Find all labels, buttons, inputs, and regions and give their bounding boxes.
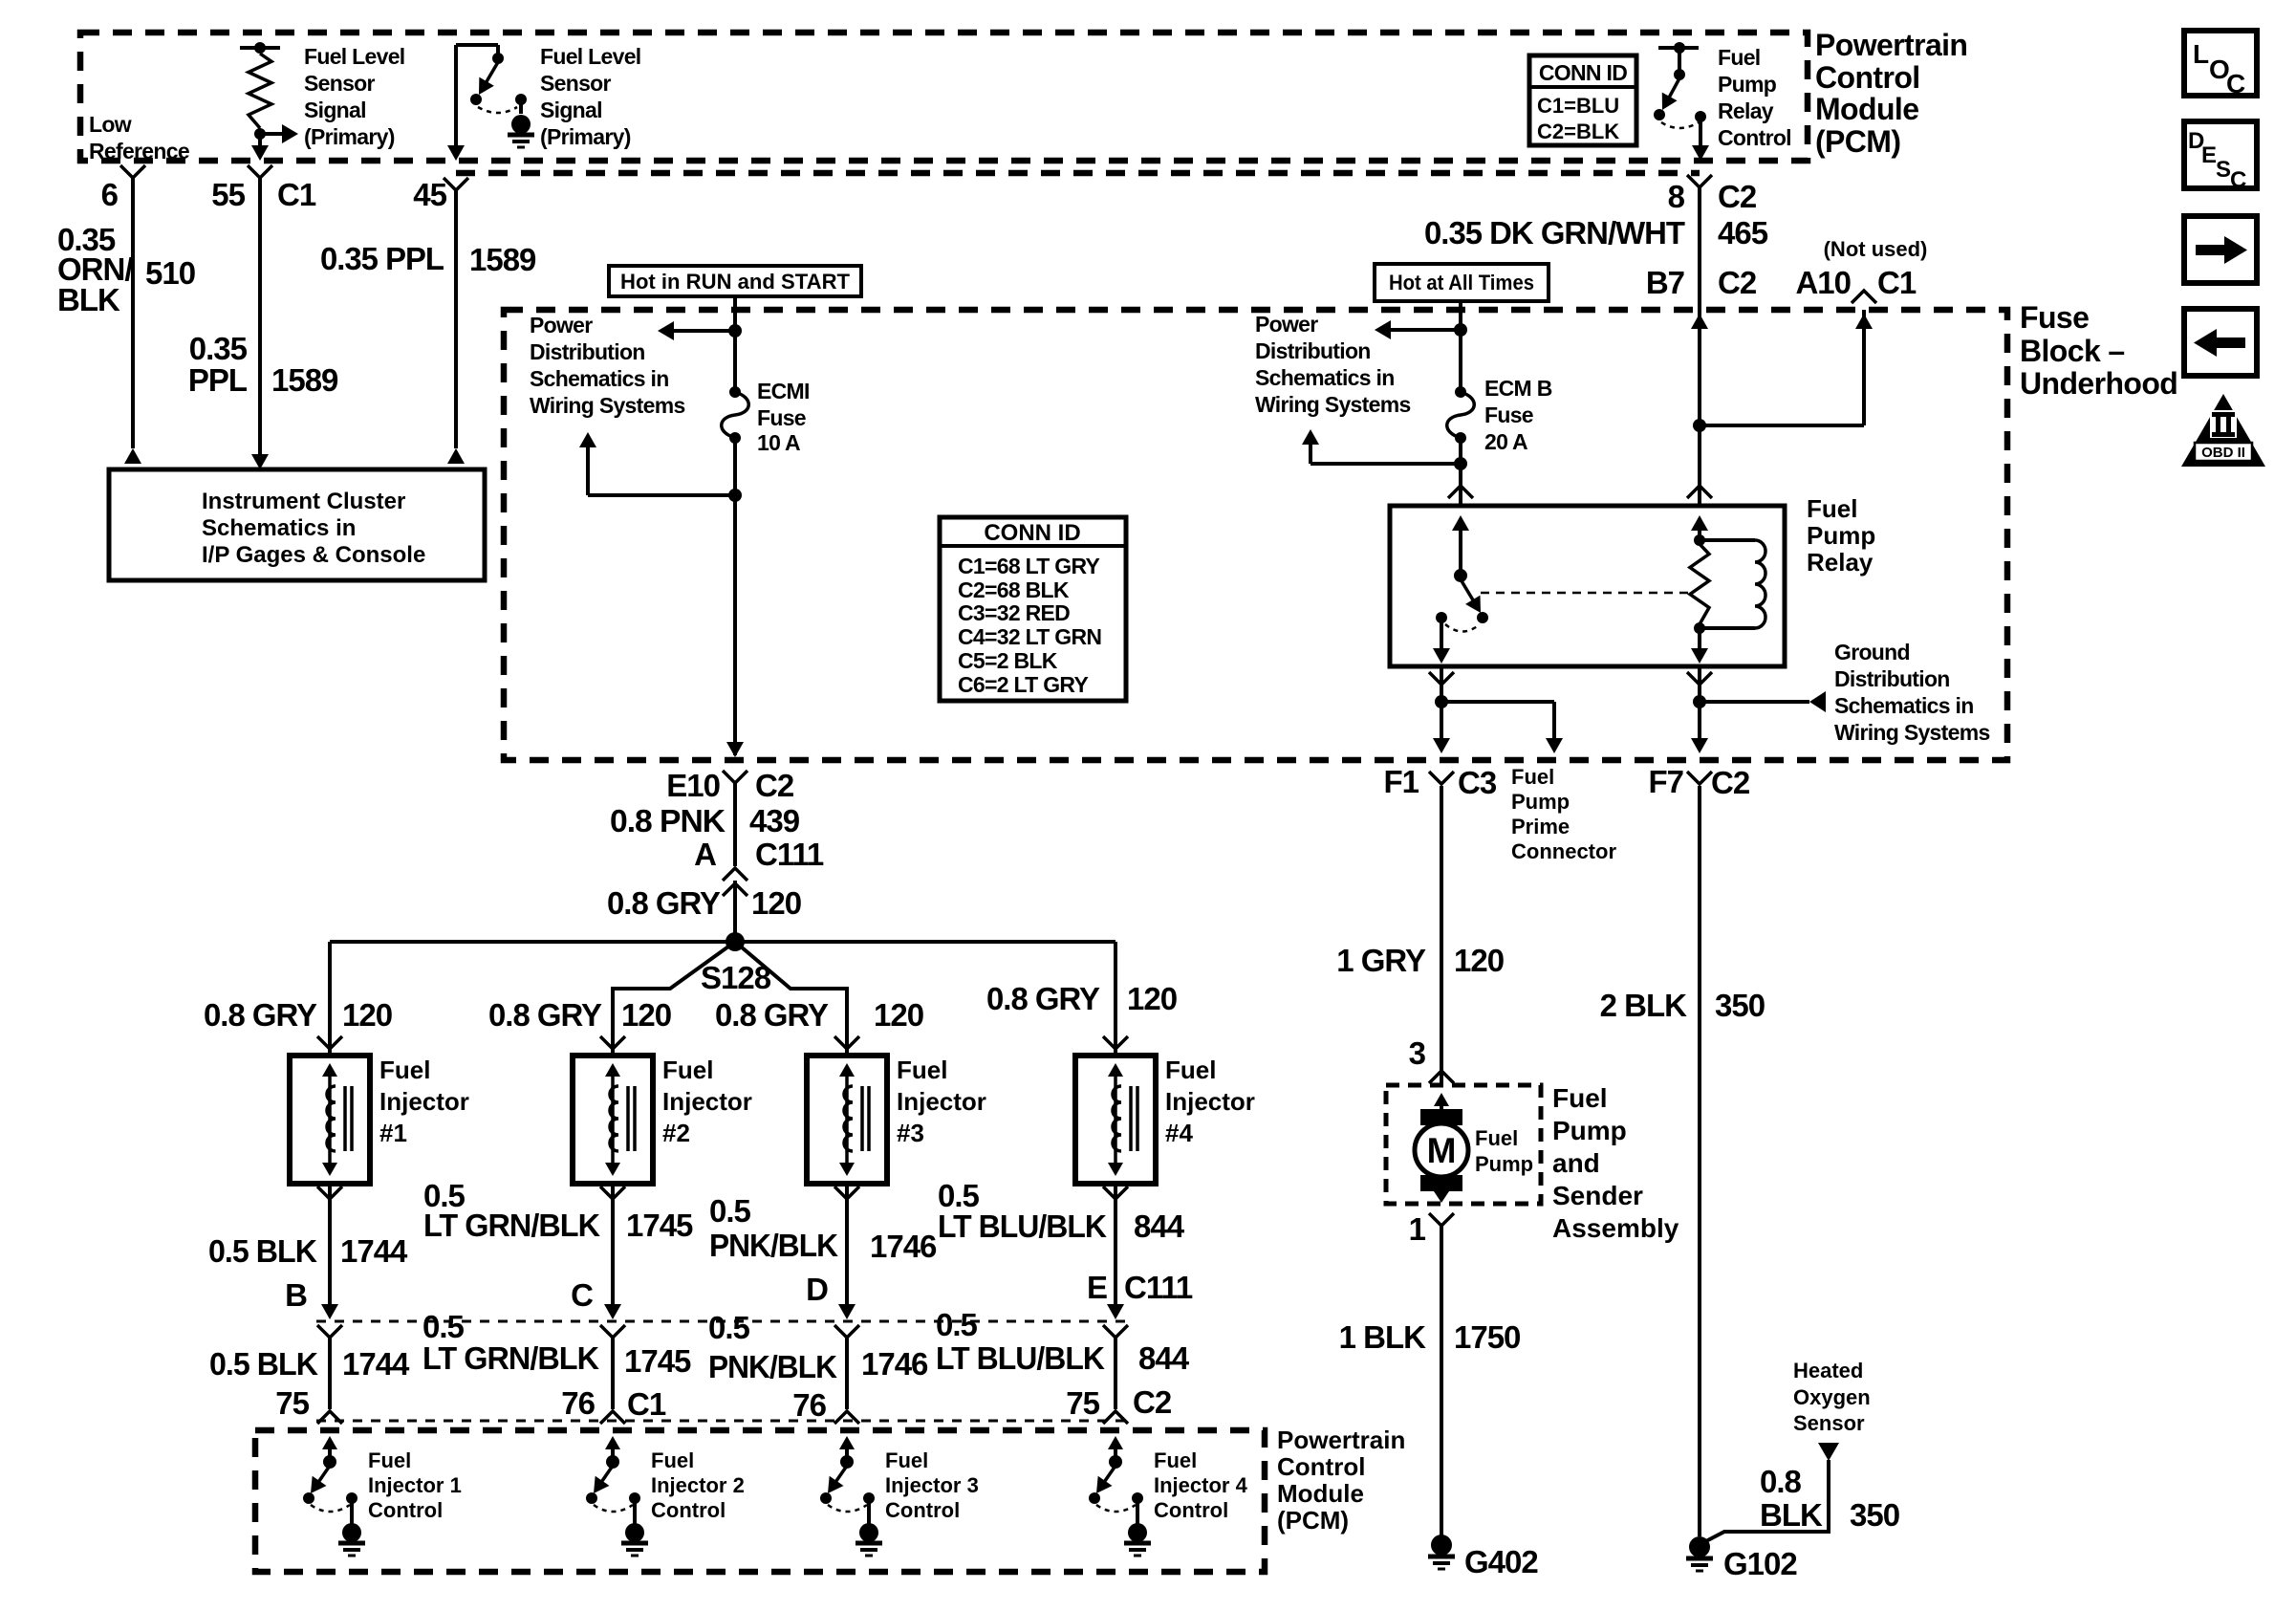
label Fuel Pump Prime Connector (1511, 765, 1616, 863)
svg-text:350: 350 (1715, 988, 1765, 1023)
PCM bottom dashed box (255, 1430, 1265, 1572)
svg-text:Wiring Systems: Wiring Systems (530, 393, 685, 418)
svg-text:G102: G102 (1723, 1546, 1797, 1581)
wire to ECM B fuse (1459, 330, 1462, 392)
motor M fuel pump (1415, 1093, 1468, 1203)
svg-text:Sensor: Sensor (304, 71, 376, 96)
fuel pump and sender assembly dashed box (1386, 1085, 1541, 1204)
label Heated Oxygen Sensor (1793, 1359, 1871, 1435)
svg-text:Heated: Heated (1793, 1359, 1863, 1382)
svg-text:0.5 BLK: 0.5 BLK (209, 1346, 318, 1382)
svg-text:1589: 1589 (469, 242, 536, 277)
label C2=BLK (1537, 120, 1619, 143)
label Fuel Pump Relay (1807, 494, 1875, 577)
wire resistor output arrow (260, 124, 298, 143)
svg-text:0.35: 0.35 (189, 331, 248, 366)
svg-text:Fuel Level: Fuel Level (304, 44, 405, 69)
svg-text:C2: C2 (1718, 265, 1757, 300)
svg-text:1: 1 (1409, 1211, 1426, 1247)
svg-text:0.5: 0.5 (708, 1310, 750, 1345)
connector pin 8 / C2 (1668, 175, 1757, 214)
svg-text:Control: Control (1277, 1452, 1365, 1481)
label Fuel Injector 4 Control (1154, 1448, 1248, 1522)
svg-text:ECM B: ECM B (1484, 376, 1552, 401)
connector pin A10 / C1 (not used) (1795, 237, 1927, 303)
connector chevron injector 3 at C111 (834, 1325, 859, 1338)
svg-text:(Not used): (Not used) (1824, 237, 1928, 261)
svg-text:Sensor: Sensor (540, 71, 612, 96)
fuel pump relay box (1390, 506, 1785, 666)
svg-text:0.8 GRY: 0.8 GRY (607, 885, 721, 921)
svg-text:C1: C1 (277, 177, 316, 212)
svg-text:C111: C111 (1124, 1270, 1193, 1305)
connector pin E / C111 (1087, 1270, 1193, 1305)
svg-text:465: 465 (1718, 215, 1768, 250)
svg-text:55: 55 (211, 177, 245, 212)
svg-text:Fuel: Fuel (368, 1448, 411, 1472)
svg-text:Control: Control (1718, 125, 1791, 150)
wire wiring-systems reference arrow right (up) (1302, 429, 1461, 464)
svg-text:C6=2 LT GRY: C6=2 LT GRY (958, 672, 1088, 697)
label 0.8 GRY 120 (inj4) (986, 981, 1177, 1016)
svg-text:(PCM): (PCM) (1277, 1506, 1349, 1535)
svg-text:76: 76 (561, 1385, 595, 1421)
svg-text:Fuel: Fuel (1718, 45, 1760, 70)
svg-text:Distribution: Distribution (1255, 338, 1371, 363)
svg-text:BLK: BLK (57, 282, 120, 317)
splice S128 (701, 932, 771, 995)
label 465 (1718, 215, 1768, 250)
icon DESC box (2184, 121, 2257, 193)
ground (fuel injector 3 driver) (856, 1498, 882, 1556)
ground G402 (1428, 1535, 1538, 1579)
node ECMI feed junction (728, 324, 742, 337)
svg-text:B: B (285, 1277, 307, 1313)
connector pin 75 (inj1) (275, 1385, 309, 1421)
svg-text:0.35 DK GRN/WHT: 0.35 DK GRN/WHT (1424, 215, 1685, 250)
svg-text:1746: 1746 (870, 1229, 937, 1264)
svg-text:I/P Gages & Console: I/P Gages & Console (202, 542, 425, 568)
connector pin 76 (inj3) (792, 1387, 826, 1423)
svg-text:Fuel: Fuel (1154, 1448, 1197, 1472)
fuel injector #1 (290, 1056, 370, 1184)
connector pin B7 / C2 (1646, 265, 1757, 300)
wire from Hot at All Times label (1459, 301, 1462, 331)
svg-text:Signal: Signal (540, 98, 602, 122)
svg-text:120: 120 (1127, 981, 1177, 1016)
label 0.35 PPL (right) (320, 241, 444, 276)
svg-text:75: 75 (275, 1385, 309, 1421)
svg-text:Control: Control (1815, 60, 1920, 95)
label ECM B Fuse 20 A (1484, 376, 1552, 454)
svg-text:B7: B7 (1646, 265, 1684, 300)
svg-text:Signal: Signal (304, 98, 366, 122)
label Power Distribution Schematics (right) (1255, 312, 1411, 417)
switch fuel injector 3 driver (in PCM) (820, 1436, 875, 1512)
fuel injector #4 (1075, 1056, 1156, 1184)
switch fuel injector 2 driver (in PCM) (586, 1436, 640, 1512)
label Powertrain Control Module (PCM) bottom (1277, 1426, 1405, 1535)
svg-text:CONN ID: CONN ID (1539, 60, 1627, 85)
svg-text:Pump: Pump (1511, 790, 1570, 814)
svg-text:C3=32 RED: C3=32 RED (958, 600, 1070, 625)
label Fuel Injector 1 Control (368, 1448, 462, 1522)
svg-text:Injector: Injector (897, 1087, 986, 1116)
label C4=32 LT GRN (958, 624, 1101, 649)
node ECM B feed junction (1454, 323, 1467, 337)
wire circuit 120 (0.8 GRY main) (733, 881, 737, 942)
svg-text:Fuel: Fuel (885, 1448, 928, 1472)
svg-text:0.5: 0.5 (709, 1193, 751, 1229)
label 1 BLK (1339, 1319, 1427, 1355)
wire wiring-systems reference arrow (up) (579, 432, 735, 495)
node 465 junction (1693, 419, 1706, 432)
svg-text:C1=BLU: C1=BLU (1537, 94, 1619, 118)
svg-text:Injector: Injector (662, 1087, 752, 1116)
svg-text:E: E (1087, 1270, 1107, 1305)
icon LOC box (2184, 31, 2257, 98)
svg-text:1745: 1745 (624, 1343, 691, 1379)
svg-text:Fuel: Fuel (1552, 1083, 1608, 1113)
svg-text:LT BLU/BLK: LT BLU/BLK (936, 1340, 1105, 1376)
wire circuit 120 (1 GRY) (1440, 786, 1443, 1085)
fuse ECMI 10 A (722, 386, 749, 444)
svg-text:C1: C1 (627, 1386, 666, 1422)
relay internal dashed link (1481, 592, 1692, 595)
connector pin A / C111 (694, 837, 824, 896)
wire circuit 1589 (to cluster) (251, 178, 269, 469)
connector pin 3 (pump) (1409, 1035, 1454, 1083)
switch fuel injector 4 driver (in PCM) (1089, 1436, 1143, 1512)
connector pin D (806, 1272, 828, 1307)
svg-text:Ground: Ground (1834, 640, 1910, 664)
connector pin 76 / C1 (inj2) (561, 1385, 666, 1422)
wire power distribution reference arrow (left) (658, 321, 735, 340)
svg-text:Injector 3: Injector 3 (885, 1473, 979, 1497)
connector pin 1 (pump) (1409, 1211, 1454, 1247)
svg-text:1589: 1589 (271, 362, 338, 398)
svg-text:Control: Control (1154, 1498, 1228, 1522)
svg-text:Hot in RUN and START: Hot in RUN and START (620, 270, 851, 294)
svg-text:Instrument Cluster: Instrument Cluster (202, 489, 405, 514)
PCM top box lower edge segment (456, 170, 1700, 177)
connector chevron injector 1 feed (317, 1036, 342, 1049)
svg-text:E: E (2201, 142, 2217, 168)
connector chevron injector 4 at C111 (1103, 1325, 1128, 1338)
connector pin F7 / C2 (1648, 764, 1749, 800)
wire heated oxygen sensor branch (1702, 1443, 1839, 1543)
svg-text:C1=68 LT GRY: C1=68 LT GRY (958, 554, 1100, 578)
label 439 (749, 803, 800, 838)
ground (fuel injector 2 driver) (621, 1498, 648, 1556)
svg-text:Fuel: Fuel (1807, 494, 1857, 523)
svg-text:0.5: 0.5 (936, 1307, 978, 1342)
connector ID small table (1529, 55, 1636, 145)
svg-text:0.8 GRY: 0.8 GRY (986, 981, 1100, 1016)
label C5=2 BLK (958, 648, 1058, 673)
svg-text:Underhood: Underhood (2020, 366, 2177, 401)
Hot in RUN and START box (609, 266, 861, 296)
svg-text:439: 439 (749, 803, 800, 838)
wire 465 to relay (1698, 425, 1701, 506)
wire enters fuse block (465) (1691, 314, 1708, 329)
resistor (fuel level sensor signal) (240, 42, 280, 140)
wire below ECMI fuse (733, 438, 737, 755)
label Fuse Block - Underhood (2020, 300, 2177, 401)
connector chevron injector 2 feed (600, 1036, 625, 1049)
svg-text:844: 844 (1134, 1208, 1185, 1244)
label 0.35 ORN/BLK (57, 222, 133, 317)
relay coil input arrow (1691, 515, 1708, 540)
wire injector 1 feed (328, 942, 332, 1056)
resistor (relay) (1690, 534, 1709, 634)
label ECMI Fuse 10 A (757, 379, 810, 455)
svg-text:1744: 1744 (342, 1346, 410, 1382)
svg-text:C2: C2 (1711, 765, 1750, 800)
wire to ECMI fuse (733, 331, 737, 392)
svg-text:F7: F7 (1648, 764, 1683, 799)
svg-text:350: 350 (1850, 1497, 1899, 1533)
icon arrow left box (2184, 309, 2257, 376)
node ECMI lower junction (728, 489, 742, 502)
svg-text:Oxygen: Oxygen (1793, 1385, 1871, 1409)
label 0.5 PNK/BLK 1746 (lower) (708, 1310, 928, 1384)
label 0.5 PNK/BLK 1746 (upper) (709, 1193, 937, 1264)
connector pin 55 / C1 (211, 165, 316, 212)
wire circuit 465 (1698, 187, 1701, 425)
label 1750 (1454, 1319, 1520, 1355)
svg-text:Schematics in: Schematics in (530, 366, 669, 391)
wire injector 4 control (upper) (1107, 1184, 1124, 1319)
wire circuit 350 (2 BLK) (1698, 786, 1701, 1536)
connector chevron below injector 2 (600, 1186, 625, 1199)
connector chevron below injector 1 (317, 1186, 342, 1199)
svg-text:(Primary): (Primary) (304, 124, 395, 149)
svg-text:LT GRN/BLK: LT GRN/BLK (423, 1208, 600, 1243)
svg-text:D: D (806, 1272, 828, 1307)
connector ID table (940, 517, 1126, 701)
svg-text:Fuel: Fuel (897, 1056, 947, 1084)
svg-text:Sensor: Sensor (1793, 1411, 1865, 1435)
label 2 BLK (1600, 988, 1688, 1023)
label 0.5 LT BLU/BLK 844 (lower) (936, 1307, 1190, 1376)
label 0.35 DK GRN/WHT (1424, 215, 1685, 250)
svg-text:76: 76 (792, 1387, 826, 1423)
wire relay coil to F7 (1691, 666, 1708, 753)
svg-text:10 A: 10 A (757, 430, 800, 455)
fuel injector #3 (807, 1056, 887, 1184)
svg-text:C2=68 BLK: C2=68 BLK (958, 577, 1070, 602)
fuel injector #2 (573, 1056, 653, 1184)
svg-text:0.8 GRY: 0.8 GRY (204, 997, 317, 1033)
svg-text:PNK/BLK: PNK/BLK (708, 1349, 837, 1384)
svg-text:Fuse: Fuse (2020, 300, 2089, 335)
svg-text:Schematics in: Schematics in (1834, 693, 1974, 718)
wire below ECM B fuse (1459, 438, 1462, 506)
svg-text:C: C (2226, 69, 2245, 98)
svg-text:Fuel Level: Fuel Level (540, 44, 641, 69)
svg-text:C5=2 BLK: C5=2 BLK (958, 648, 1058, 673)
svg-text:C2: C2 (755, 768, 794, 803)
svg-text:and: and (1552, 1148, 1600, 1178)
connector chevron injector 2 at C111 (600, 1325, 625, 1338)
svg-text:Power: Power (1255, 312, 1318, 337)
svg-text:Fuel: Fuel (379, 1056, 430, 1084)
svg-text:CONN ID: CONN ID (984, 520, 1080, 546)
label C1=BLU (1537, 94, 1619, 118)
svg-text:Schematics in: Schematics in (202, 515, 356, 541)
relay switch contact dashed arc (1445, 624, 1480, 632)
label Fuel Injector #3 (897, 1056, 986, 1147)
PCM top dashed box (Powertrain Control Module) (80, 33, 1808, 161)
svg-text:Fuel: Fuel (1165, 1056, 1216, 1084)
label 0.8 GRY (main) (607, 885, 721, 921)
wire injector 3 control (lower) (834, 1338, 859, 1424)
svg-text:Wiring Systems: Wiring Systems (1834, 720, 1990, 745)
svg-text:A10: A10 (1795, 265, 1851, 300)
svg-text:0.5: 0.5 (422, 1309, 465, 1344)
label Powertrain Control Module (PCM) top (1815, 28, 1967, 159)
svg-text:Fuel: Fuel (1475, 1126, 1518, 1150)
switch fuel injector 1 driver (in PCM) (303, 1436, 357, 1512)
svg-text:Wiring Systems: Wiring Systems (1255, 392, 1411, 417)
svg-text:Fuel: Fuel (1511, 765, 1554, 789)
svg-text:Injector 1: Injector 1 (368, 1473, 462, 1497)
svg-text:Block –: Block – (2020, 334, 2125, 368)
svg-text:Distribution: Distribution (1834, 666, 1950, 691)
svg-text:L: L (2193, 39, 2209, 69)
svg-text:Relay: Relay (1718, 98, 1774, 123)
svg-text:1750: 1750 (1454, 1319, 1520, 1355)
label C3=32 RED (958, 600, 1070, 625)
svg-text:C2: C2 (1133, 1384, 1172, 1420)
label Low Reference (89, 112, 189, 163)
svg-text:Injector 4: Injector 4 (1154, 1473, 1248, 1497)
svg-text:A: A (694, 837, 716, 872)
svg-text:Injector: Injector (1165, 1087, 1255, 1116)
svg-text:Control: Control (885, 1498, 960, 1522)
wire pin 45 inside PCM (447, 45, 465, 161)
wire S128 bus (330, 940, 1116, 944)
label Fuel Level Sensor Signal (Primary) right (540, 44, 641, 149)
svg-text:1744: 1744 (340, 1233, 408, 1269)
wire injector 1 control (lower) (317, 1338, 342, 1424)
label Instrument Cluster Schematics (202, 489, 425, 568)
svg-text:Pump: Pump (1475, 1152, 1533, 1176)
label 0.5 BLK 1744 (upper) (208, 1233, 408, 1269)
label Fuel Pump (inside box) (1475, 1126, 1533, 1176)
label 0.35 PPL (left) (188, 331, 248, 398)
wire circuit 1589 (right) (447, 190, 465, 464)
svg-text:G402: G402 (1464, 1544, 1538, 1579)
switch fuel pump relay control driver (in PCM) (1654, 42, 1706, 128)
svg-text:PNK/BLK: PNK/BLK (709, 1228, 838, 1263)
label Power Distribution Schematics (left) (530, 313, 685, 418)
svg-text:Fuse: Fuse (1484, 403, 1533, 427)
svg-text:Powertrain: Powertrain (1277, 1426, 1405, 1454)
svg-text:F1: F1 (1383, 764, 1419, 799)
label Fuel Injector #2 (662, 1056, 752, 1147)
svg-text:120: 120 (874, 997, 923, 1033)
svg-text:C111: C111 (755, 837, 824, 872)
svg-text:0.8 GRY: 0.8 GRY (488, 997, 602, 1033)
ground G102 (1686, 1536, 1797, 1581)
label C1=68 LT GRY (958, 554, 1100, 578)
label 0.8 PNK (610, 803, 726, 838)
wire injector 4 feed (1114, 942, 1117, 1056)
wire exits fuse block (E10) (726, 742, 744, 757)
label 0.8 BLK (O2) (1760, 1464, 1823, 1533)
relay switch common (from ECM B) (1452, 515, 1469, 582)
connector chevron below relay (F7 side) (1687, 672, 1712, 685)
svg-text:Schematics in: Schematics in (1255, 365, 1395, 390)
svg-text:120: 120 (342, 997, 392, 1033)
svg-text:1746: 1746 (861, 1346, 928, 1382)
svg-text:1 BLK: 1 BLK (1339, 1319, 1427, 1355)
svg-text:0.8: 0.8 (1760, 1464, 1802, 1499)
svg-text:#4: #4 (1165, 1119, 1193, 1147)
svg-text:Distribution: Distribution (530, 339, 645, 364)
connector chevron below relay (F1 side) (1429, 672, 1454, 685)
connector chevron relay terminal (coil side) (1687, 486, 1712, 498)
node fuel pump prime junction (1435, 695, 1448, 708)
label 1589 (left) (271, 362, 338, 398)
svg-text:E10: E10 (666, 768, 720, 803)
wire relay output to F1 (1433, 666, 1450, 753)
svg-text:2 BLK: 2 BLK (1600, 988, 1688, 1023)
wire injector 1 control (upper) (321, 1184, 338, 1319)
svg-text:C3: C3 (1458, 765, 1497, 800)
svg-text:#1: #1 (379, 1119, 407, 1147)
svg-text:Pump: Pump (1552, 1116, 1627, 1145)
wire relay coil output (1691, 628, 1708, 664)
Hot at All Times box (1375, 264, 1549, 301)
label C6=2 LT GRY (958, 672, 1088, 697)
svg-text:Module: Module (1277, 1479, 1364, 1508)
svg-text:Power: Power (530, 313, 593, 337)
svg-text:20 A: 20 A (1484, 429, 1527, 454)
switch (fuel level sensor) (456, 45, 527, 113)
in-line connector C111 (dashed) (316, 1320, 1128, 1323)
svg-text:Control: Control (368, 1498, 443, 1522)
svg-text:Module: Module (1815, 92, 1918, 126)
relay switch output contact (1433, 612, 1450, 664)
wire circuit 1750 (1 BLK) (1440, 1226, 1443, 1535)
svg-text:120: 120 (621, 997, 671, 1033)
svg-text:3: 3 (1409, 1035, 1426, 1071)
svg-text:Fuel: Fuel (651, 1448, 694, 1472)
icon OBD II triangle (2181, 394, 2265, 467)
fuse ECM B 20 A (1447, 386, 1475, 444)
fuse block dashed box (Fuse Block - Underhood) (504, 310, 2007, 760)
label Fuel Pump and Sender Assembly (1552, 1083, 1679, 1243)
svg-text:Reference: Reference (89, 139, 189, 163)
svg-text:ECMI: ECMI (757, 379, 810, 403)
svg-text:Prime: Prime (1511, 815, 1570, 838)
relay switch arm (1461, 579, 1488, 623)
svg-text:510: 510 (145, 255, 195, 291)
inductor coil (relay) (1700, 540, 1765, 628)
svg-text:Low: Low (89, 112, 132, 137)
wire circuit 510 (124, 178, 141, 464)
svg-text:Injector 2: Injector 2 (651, 1473, 745, 1497)
svg-text:120: 120 (1454, 943, 1504, 978)
label 0.8 GRY 120 (inj1) (204, 997, 392, 1033)
svg-text:C: C (571, 1277, 593, 1313)
svg-text:0.8 PNK: 0.8 PNK (610, 803, 726, 838)
label 0.5 LT GRN/BLK 1745 (upper) (423, 1178, 693, 1243)
wire fuel pump prime branch (1441, 702, 1563, 753)
